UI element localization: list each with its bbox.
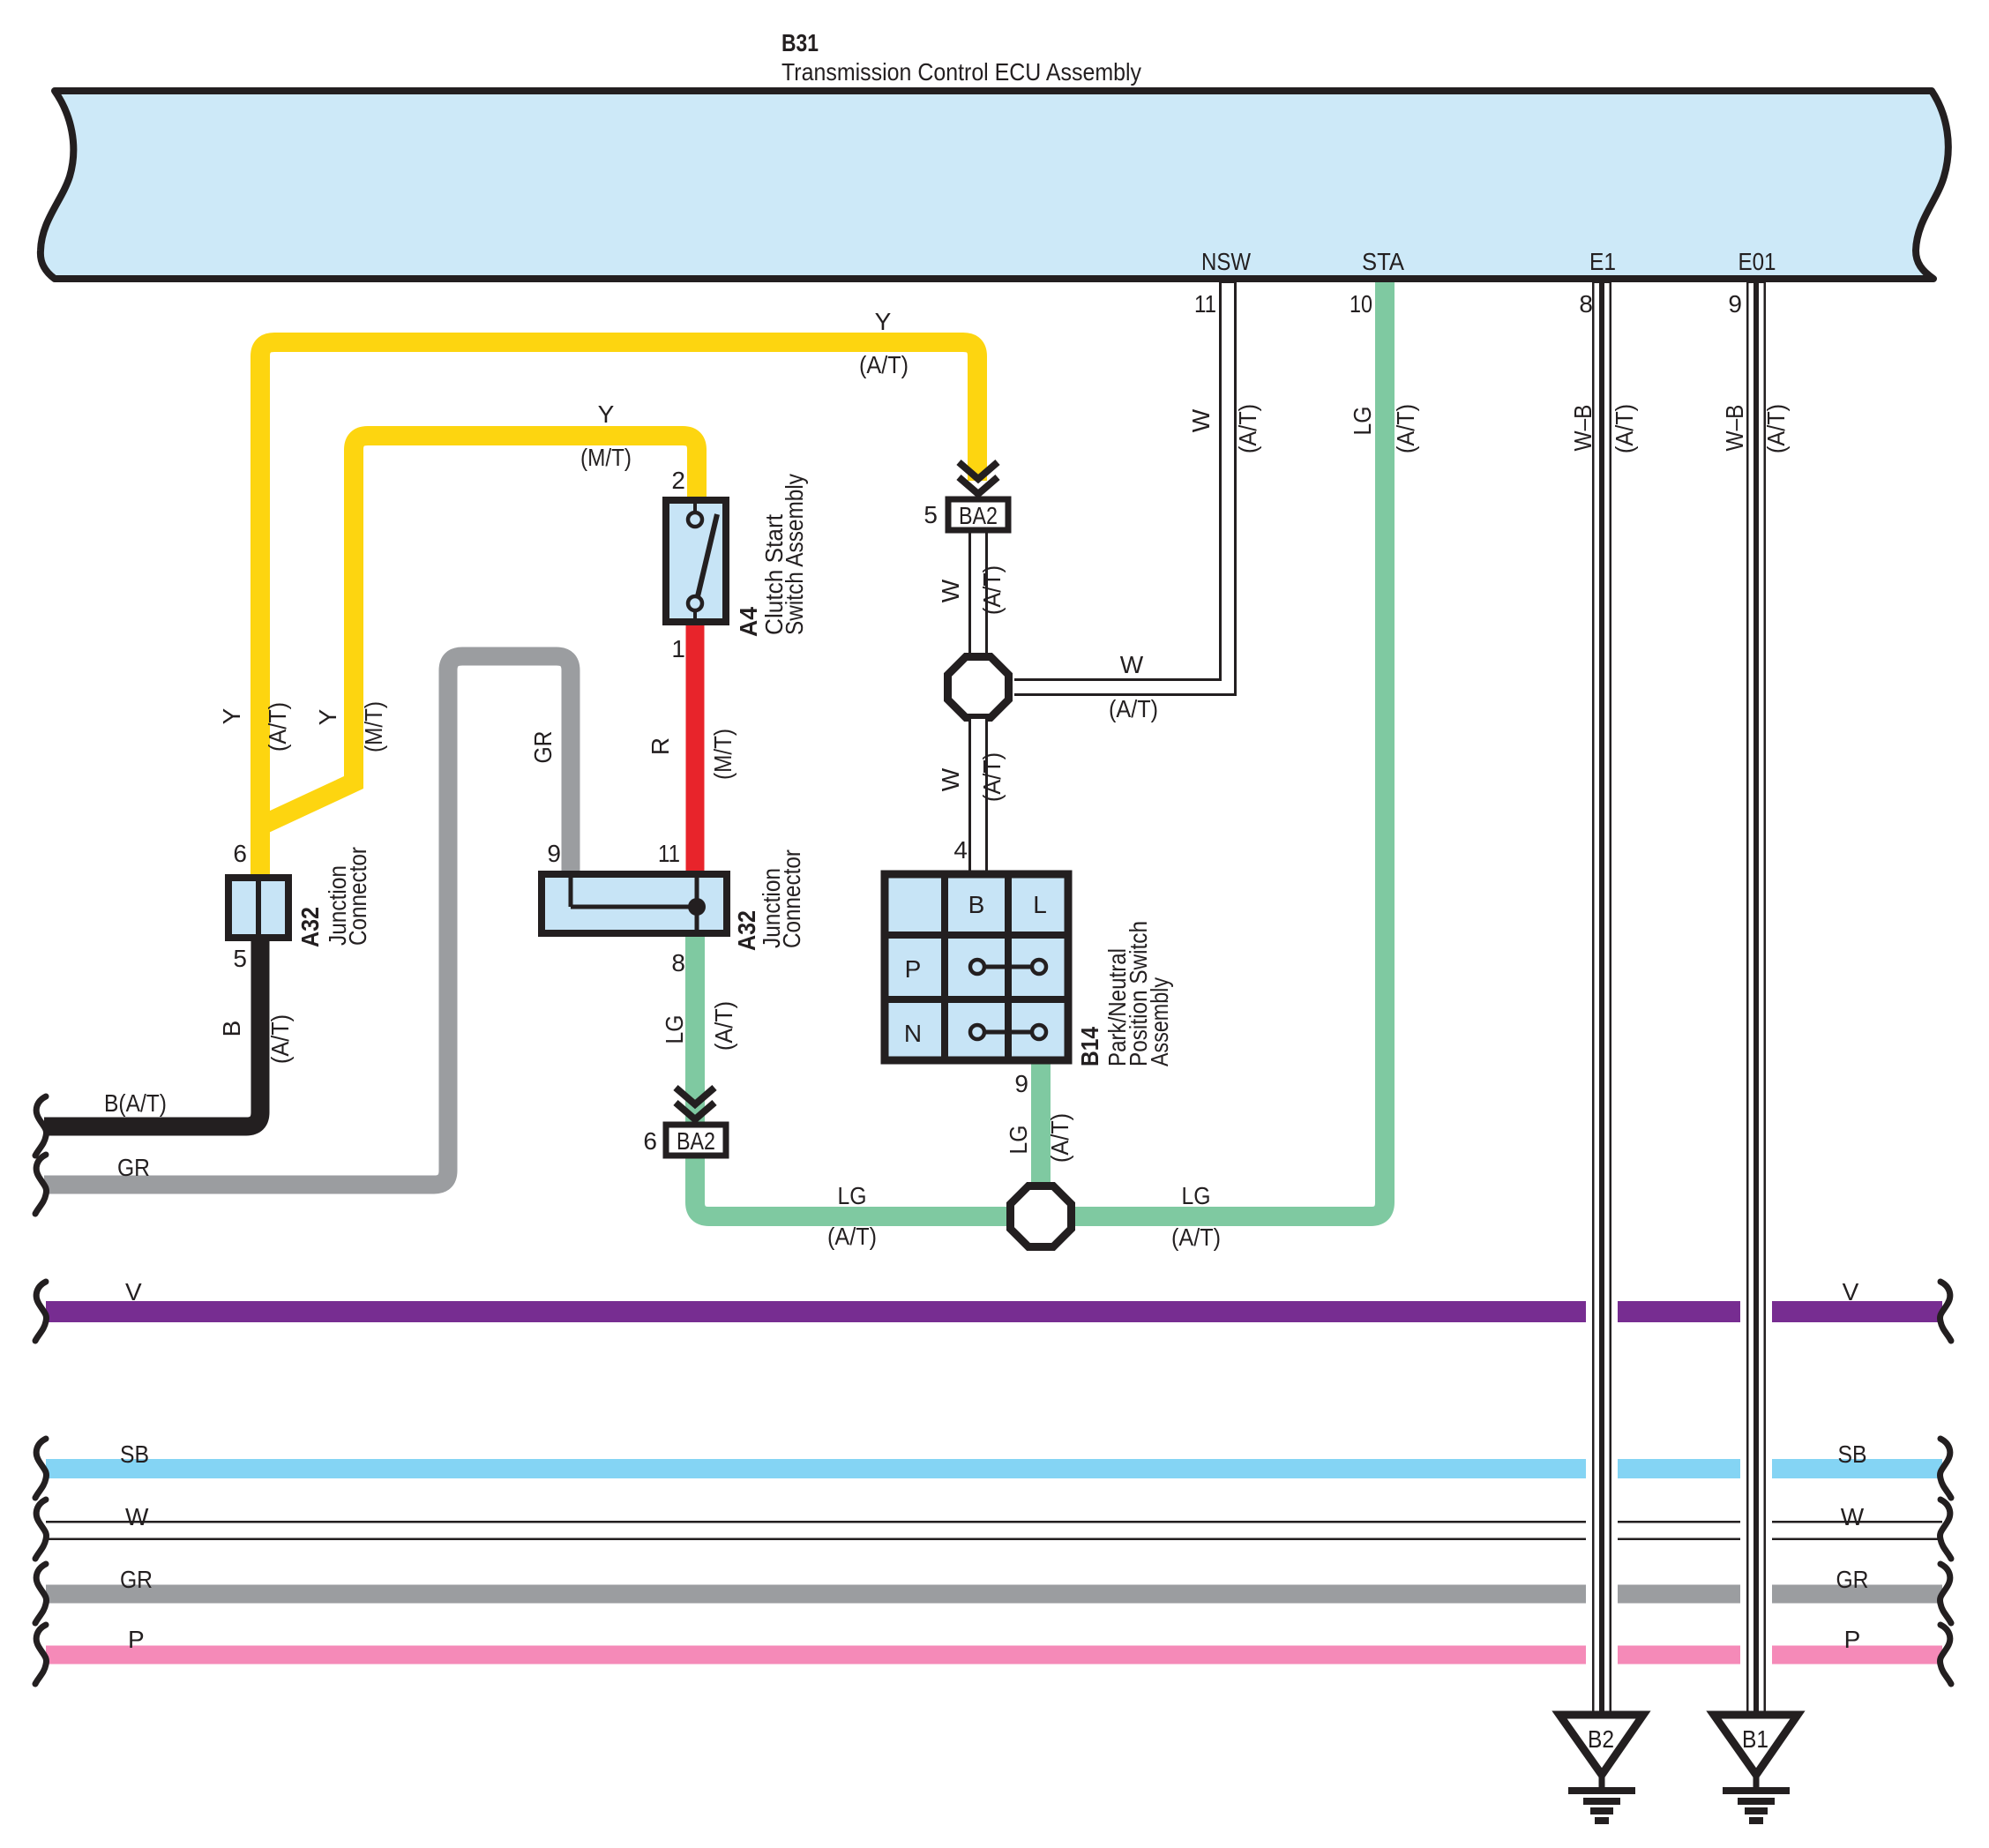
svg-text:GR: GR [120,1566,153,1593]
svg-text:GR: GR [117,1154,150,1181]
svg-text:SB: SB [1838,1440,1867,1468]
svg-text:5: 5 [923,501,938,528]
svg-text:Y: Y [218,707,245,724]
svg-text:B1: B1 [1742,1725,1768,1753]
svg-text:LG: LG [1349,407,1376,436]
svg-text:B(A/T): B(A/T) [104,1089,167,1117]
svg-text:1: 1 [671,635,685,662]
svg-text:Y: Y [875,308,892,335]
svg-text:11: 11 [1194,290,1216,318]
svg-text:W: W [937,579,964,602]
svg-text:GR: GR [1836,1566,1869,1593]
svg-text:NSW: NSW [1201,248,1251,275]
svg-text:W–B: W–B [1569,405,1596,452]
svg-text:6: 6 [643,1127,657,1155]
svg-text:Connector: Connector [344,847,371,946]
svg-text:(A/T): (A/T) [1762,404,1790,453]
svg-text:(A/T): (A/T) [827,1223,877,1250]
svg-text:E01: E01 [1739,248,1776,275]
svg-text:2: 2 [671,467,685,494]
svg-text:6: 6 [233,840,247,867]
svg-text:10: 10 [1350,290,1372,318]
svg-text:W: W [125,1503,149,1530]
svg-text:Transmission Control ECU Assem: Transmission Control ECU Assembly [781,58,1141,86]
svg-text:BA2: BA2 [959,502,998,529]
svg-text:(A/T): (A/T) [1234,404,1261,453]
svg-text:8: 8 [671,949,685,976]
svg-text:9: 9 [1728,290,1742,318]
svg-text:(A/T): (A/T) [1171,1223,1221,1251]
svg-text:5: 5 [233,945,247,972]
svg-text:B31: B31 [781,29,819,56]
svg-text:B: B [968,891,985,918]
svg-text:W–B: W–B [1721,405,1748,452]
svg-text:W: W [937,767,964,791]
svg-text:9: 9 [547,840,561,867]
svg-text:V: V [125,1278,142,1306]
svg-text:(A/T): (A/T) [710,1001,737,1051]
svg-text:W: W [1120,651,1144,678]
svg-text:LG: LG [838,1182,867,1209]
svg-text:B2: B2 [1588,1725,1614,1753]
svg-text:SB: SB [120,1440,149,1468]
svg-text:(A/T): (A/T) [978,565,1006,615]
svg-text:STA: STA [1362,248,1404,275]
svg-text:LG: LG [1182,1182,1211,1209]
svg-text:(A/T): (A/T) [1046,1113,1073,1163]
svg-text:A32: A32 [296,907,324,947]
svg-text:E1: E1 [1589,248,1616,275]
svg-text:Y: Y [314,708,341,725]
svg-text:B: B [218,1021,245,1037]
svg-text:W: W [1187,408,1215,432]
svg-text:(A/T): (A/T) [1392,404,1419,453]
svg-text:B14: B14 [1076,1027,1103,1066]
svg-text:(A/T): (A/T) [266,1014,294,1064]
svg-text:LG: LG [1005,1126,1032,1155]
svg-text:N: N [904,1020,922,1047]
svg-text:(M/T): (M/T) [580,444,632,471]
svg-text:R: R [647,737,674,755]
svg-text:9: 9 [1014,1070,1028,1097]
svg-text:Y: Y [598,400,615,428]
svg-text:11: 11 [658,840,680,867]
svg-text:(A/T): (A/T) [859,351,909,378]
svg-text:A32: A32 [733,910,760,951]
svg-text:4: 4 [953,836,968,864]
svg-text:L: L [1033,891,1047,918]
svg-text:(M/T): (M/T) [360,701,387,752]
svg-text:(A/T): (A/T) [978,752,1006,802]
svg-text:P: P [905,955,922,983]
svg-text:A4: A4 [735,607,762,637]
svg-text:W: W [1841,1503,1865,1530]
svg-text:8: 8 [1579,290,1593,318]
svg-text:V: V [1843,1278,1859,1306]
svg-text:(A/T): (A/T) [264,702,291,752]
svg-text:GR: GR [529,731,557,764]
svg-text:(A/T): (A/T) [1611,404,1638,453]
svg-text:Assembly: Assembly [1146,977,1173,1066]
svg-text:P: P [128,1626,145,1653]
svg-text:P: P [1844,1626,1861,1653]
svg-text:Connector: Connector [778,849,805,948]
svg-text:(A/T): (A/T) [1109,695,1158,722]
svg-text:(M/T): (M/T) [709,729,737,780]
svg-text:Switch Assembly: Switch Assembly [781,474,808,635]
svg-text:BA2: BA2 [677,1127,715,1155]
svg-text:LG: LG [661,1015,688,1044]
